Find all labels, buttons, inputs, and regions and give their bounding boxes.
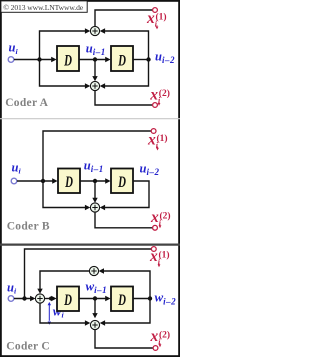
wire input to adder (Coder C): [14, 298, 31, 300]
junction u_i-2 (Coder A): [146, 57, 150, 61]
wire D1 to D2 (Coder C): [79, 298, 106, 300]
svg-text:Coder C: Coder C: [6, 341, 50, 353]
wire w_i-2 up to feedback adder (Coder C): [104, 271, 150, 299]
output node x1 (Coder A): [153, 8, 158, 13]
label x_i^(2) (Coder A): [149, 87, 170, 106]
junction u_i-1 (Coder B): [93, 179, 97, 183]
wire u_i-1 down to adder (Coder B): [94, 181, 96, 198]
copyright box: [1, 1, 87, 12]
label x_i^(1) (Coder B): [147, 131, 168, 150]
wire u_i-1 down to bottom adder (Coder A): [94, 60, 96, 77]
wire w_i-1 down to output adder (Coder C): [94, 299, 96, 314]
adder input (Coder C): [35, 294, 44, 303]
svg-text:Coder A: Coder A: [5, 97, 48, 109]
output node x1 (Coder C): [151, 247, 156, 252]
svg-text:D: D: [63, 51, 72, 69]
input node u_i (Coder B): [11, 178, 17, 184]
delay box D1 (Coder A): [57, 46, 79, 71]
label x_i^(1) (Coder C): [149, 248, 170, 267]
svg-text:D: D: [63, 291, 72, 309]
adder top (Coder A): [90, 26, 99, 35]
wire u_i-2 down to adder (Coder B): [105, 181, 149, 208]
input node u_i (Coder A): [8, 57, 14, 63]
wire input adder to D1 (Coder C): [44, 298, 51, 300]
junction input (Coder C): [22, 296, 26, 300]
output node x2 (Coder A): [153, 103, 158, 108]
wire up-rail to top adder (Coder A): [40, 31, 86, 60]
adder output (Coder C): [90, 320, 99, 329]
junction w_i-2 (Coder C): [148, 296, 152, 300]
junction input (Coder B): [41, 179, 45, 183]
label x_i^(1) (Coder A): [146, 10, 167, 29]
svg-text:D: D: [64, 173, 73, 191]
divider line 2 (below Coder B): [0, 244, 180, 246]
svg-text:© 2013 www.LNTwww.de: © 2013 www.LNTwww.de: [3, 3, 84, 12]
junction w_i-1 (Coder C): [93, 296, 97, 300]
svg-text:D: D: [117, 291, 126, 309]
output node x2 (Coder B): [153, 225, 158, 230]
wire u_i-2 down to bottom adder (Coder A): [105, 60, 149, 87]
label x_i^(2) (Coder B): [150, 209, 171, 228]
wire top adder to output x1 (Coder A): [95, 10, 152, 27]
wire bottom adder to output x2 (Coder A): [95, 90, 152, 105]
wire systematic rail to x1 (Coder C): [25, 249, 152, 299]
wire D2 output (Coder A): [133, 59, 149, 61]
junction input (Coder A): [37, 57, 41, 61]
wire D1 to D2 (Coder B): [80, 180, 106, 182]
wire w_i-2 down to output adder (Coder C): [105, 299, 150, 324]
input node u_i (Coder C): [8, 296, 14, 302]
output node x1 (Coder B): [151, 129, 156, 134]
wire w_i down branch to output adder (Coder C): [40, 303, 85, 323]
wire feedback adder to input adder (Coder C): [40, 271, 90, 289]
wire input to D1 (Coder B): [17, 180, 53, 182]
wire D1 to D2 (Coder A): [79, 59, 106, 61]
adder feedback (Coder C): [89, 266, 98, 275]
label x_i^(2) (Coder C): [150, 328, 171, 347]
delay box D1 (Coder B): [58, 169, 80, 194]
delay box D2 (Coder C): [111, 287, 133, 312]
wire u_i left branch to adder (Coder B): [43, 181, 85, 208]
svg-text:Coder B: Coder B: [7, 221, 50, 233]
node w_i blue arrow (Coder C): [48, 302, 51, 325]
junction w_i (Coder C): [49, 297, 53, 301]
divider line 1 (below Coder A): [0, 118, 180, 120]
wire input to D1 (Coder A): [14, 59, 52, 61]
wire u_i-2 up to top adder (Coder A): [105, 31, 149, 60]
delay box D2 (Coder B): [111, 169, 133, 194]
border frame: [1, 1, 179, 356]
delay box D2 (Coder A): [111, 46, 133, 71]
output node x2 (Coder C): [153, 346, 158, 351]
wire u_i left branch to bottom adder (Coder A): [40, 60, 86, 87]
wire D2 output (Coder C): [133, 298, 150, 300]
svg-text:D: D: [117, 173, 126, 191]
wire systematic rail to x1 (Coder B): [43, 131, 151, 181]
wire adder to output x2 (Coder B): [95, 212, 152, 228]
delay box D1 (Coder C): [57, 287, 79, 312]
junction u_i-1 (Coder A): [93, 57, 97, 61]
adder bottom (Coder A): [90, 81, 99, 90]
wire output adder to x2 (Coder C): [95, 330, 153, 348]
adder (Coder B): [90, 203, 99, 212]
svg-text:D: D: [117, 51, 126, 69]
